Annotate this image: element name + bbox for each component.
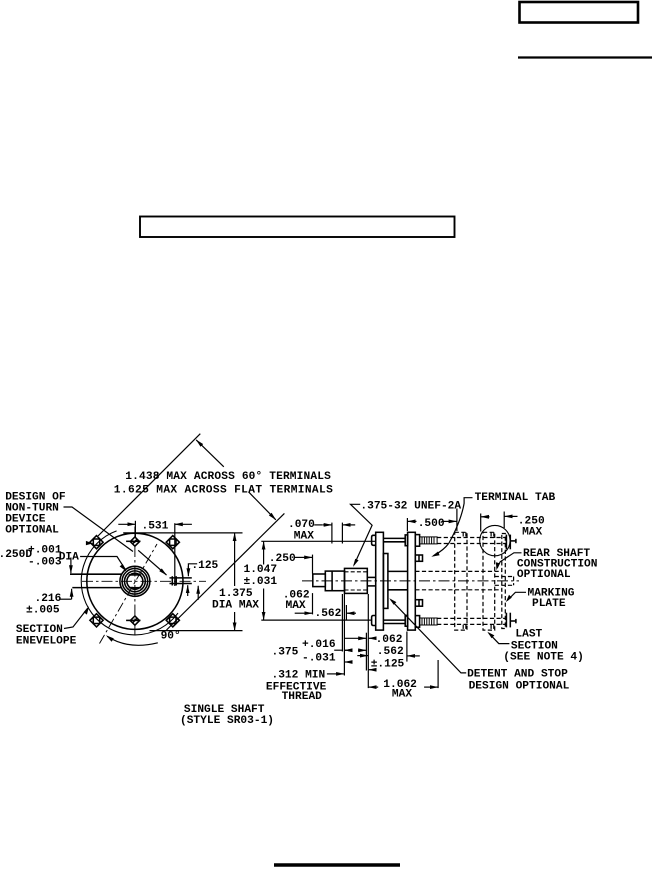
leader: section envelope: [64, 608, 88, 628]
svg-text:1.625 MAX ACROSS FLAT TERMINAL: 1.625 MAX ACROSS FLAT TERMINALS: [114, 484, 333, 496]
dim .216 upper arrow: [70, 558, 72, 574]
svg-text:DESIGN OPTIONAL: DESIGN OPTIONAL: [469, 681, 570, 693]
non-turn device tab lines (left): [70, 573, 122, 575]
terminal top-right diamond: [166, 536, 179, 549]
leader terminal tab: [434, 498, 473, 556]
dim .500: [406, 518, 408, 531]
threaded bushing: [345, 568, 368, 593]
svg-text:DETENT AND STOP: DETENT AND STOP: [467, 669, 568, 681]
leader last section: [489, 633, 510, 643]
dim 1.062 max: [369, 686, 379, 688]
dim .562 +-.125 row: [345, 649, 346, 651]
svg-text:.062: .062: [376, 634, 403, 646]
leader rear shaft construction: [497, 553, 521, 568]
dim 1.047 dimension line w/ arrows: [263, 542, 265, 565]
shaft tip: [313, 574, 326, 587]
svg-text:PLATE: PLATE: [532, 598, 566, 610]
rotor hub between plates: [388, 570, 408, 572]
tie rod hidden lines bottom: [437, 617, 506, 619]
bottom center rule: [274, 863, 400, 866]
side view centerline: [302, 580, 519, 582]
shaft circle with flats: [127, 573, 143, 589]
tie rod top: [383, 537, 405, 539]
svg-text:±.125: ±.125: [371, 659, 405, 671]
dim 1.375 dimension line upper w/ arrow: [234, 533, 236, 586]
svg-text:.531: .531: [142, 521, 169, 533]
dim arrow at first section plate: [407, 655, 420, 657]
svg-text:+.001: +.001: [28, 545, 62, 557]
dim .562 (shaft) row: [295, 612, 303, 614]
dim 1.375 top extension line: [123, 532, 242, 534]
svg-text:.375-32 UNEF-2A: .375-32 UNEF-2A: [360, 501, 461, 513]
svg-text:.070: .070: [288, 519, 315, 531]
terminal tab callout circle: [480, 525, 510, 555]
threaded rod end bottom: [420, 618, 438, 625]
tie rod end nut right top: [505, 535, 507, 550]
svg-text:MAX: MAX: [522, 527, 542, 539]
vertical centerline: [134, 527, 136, 638]
lower extension lines under bushing: [341, 594, 343, 652]
dim .125 bracket + upper arrow: [188, 564, 197, 568]
svg-text:1.438 MAX ACROSS 60° TERMINALS: 1.438 MAX ACROSS 60° TERMINALS: [125, 471, 331, 483]
dim .375 +.016 -.031 leader + arrows: [334, 649, 342, 651]
dim .250 shaft arrow + ext: [295, 556, 303, 558]
title block box (empty, top right): [520, 2, 639, 23]
svg-text:.375: .375: [272, 647, 299, 659]
washer top: [405, 535, 407, 546]
svg-text:.125: .125: [191, 560, 218, 572]
detent and stop housing: [383, 554, 388, 609]
dim .062 row: [345, 637, 366, 639]
washer bottom: [405, 615, 407, 626]
tie rod end nut right bottom: [505, 613, 507, 628]
svg-text:-.031: -.031: [302, 653, 336, 665]
svg-text:1.047: 1.047: [244, 564, 278, 576]
svg-text:.312 MIN: .312 MIN: [272, 670, 326, 682]
section envelope circle: [81, 531, 178, 635]
dim 1.375 dimension line lower w/ arrow: [234, 612, 236, 631]
rotor hidden lines to last section: [415, 570, 502, 572]
svg-text:OPTIONAL: OPTIONAL: [517, 569, 571, 581]
tie rod hidden lines top: [437, 537, 506, 539]
dim .312 min row: [327, 673, 336, 675]
leader: design of non-turn device: [64, 507, 134, 552]
screw head bottom: [372, 616, 376, 626]
svg-text:DIA MAX: DIA MAX: [212, 600, 259, 612]
dim .250 max (rear): [480, 514, 482, 532]
svg-text:DIA: DIA: [59, 551, 79, 563]
svg-text:ENEVELOPE: ENEVELOPE: [16, 636, 77, 648]
terminal right flat: [170, 576, 192, 585]
bushing thread hidden lines: [345, 571, 368, 573]
svg-text:1.375: 1.375: [219, 588, 253, 600]
svg-text:LAST: LAST: [515, 629, 542, 641]
leader: .250D dia: [80, 557, 125, 570]
shaft second step: [325, 571, 344, 591]
dim .531 right arrow: [175, 523, 192, 525]
rear shaft optional (phantom): [495, 576, 514, 578]
svg-text:.562: .562: [315, 608, 342, 620]
leader arrow to flat terminal (45deg): [138, 550, 166, 575]
svg-text:.216: .216: [35, 593, 62, 605]
marking plate (phantom): [502, 534, 506, 629]
dim 1.438/1.625 extension line B (lower 45deg): [167, 513, 285, 630]
figure label box (empty, middle): [140, 217, 455, 238]
optional wafer section 1 (phantom): [455, 532, 467, 630]
shaft step joint line: [331, 571, 333, 591]
dim .531 extension line 2 (right terminal): [174, 523, 176, 586]
dim 1.375 bottom extension line: [150, 630, 243, 632]
dim 1.438/1.625 extension line A (upper-left 45deg): [98, 434, 200, 536]
hub / bushing circles: [120, 566, 150, 596]
svg-text:SECTION: SECTION: [16, 624, 63, 636]
terminal top non-turn pin: [126, 537, 140, 546]
screw head top: [372, 535, 376, 545]
dim .216 lower arrow + bracket to text: [59, 598, 72, 600]
dim 1.438/1.625 dimension line upper segment w/ arrow: [196, 440, 224, 467]
terminal tab upper (on first section): [415, 555, 422, 561]
svg-text:(STYLE SR03-1): (STYLE SR03-1): [180, 715, 274, 727]
terminal top-left diamond: [90, 536, 103, 549]
front mounting plate: [376, 532, 384, 630]
dim .531 extension line 1 (center): [134, 521, 136, 538]
terminal bottom-right diamond: [166, 614, 179, 627]
leader .375-32 UNEF-2A: [351, 504, 373, 565]
horizontal centerline: [82, 580, 206, 582]
svg-text:MAX: MAX: [392, 689, 412, 701]
svg-text:±.031: ±.031: [244, 576, 278, 588]
section tab marks: [462, 532, 464, 537]
threaded rod end top: [420, 537, 438, 544]
dim 1.438/1.625 dimension line lower segment w/ arrow: [249, 492, 276, 520]
svg-text:TERMINAL TAB: TERMINAL TAB: [475, 492, 556, 504]
terminal bottom pin: [126, 616, 140, 625]
terminal tab lower (on first section): [415, 600, 422, 607]
front view text labels: [0, 471, 333, 727]
svg-text:OPTIONAL: OPTIONAL: [5, 525, 59, 537]
dim 1.047 ext lines: [261, 540, 375, 542]
tie rod bottom: [383, 619, 405, 621]
svg-text:MAX: MAX: [294, 531, 314, 543]
svg-text:MAX: MAX: [286, 600, 306, 612]
nut bottom: [415, 616, 419, 628]
svg-text:.500: .500: [418, 518, 445, 530]
svg-text:+.016: +.016: [302, 639, 336, 651]
leader detent and stop: [391, 600, 466, 673]
first section plate: [408, 532, 416, 630]
svg-text:(SEE NOTE 4): (SEE NOTE 4): [503, 652, 584, 664]
leader marking plate: [507, 592, 526, 600]
last section (phantom): [483, 532, 495, 630]
dim .125 lower arrows: [187, 585, 189, 596]
60 deg terminal centerline (diagonal dash-dot): [100, 544, 158, 644]
svg-text:±.005: ±.005: [26, 605, 60, 617]
front view body outer circle: [87, 533, 183, 629]
nut top: [415, 535, 419, 547]
terminal bottom-left diamond: [90, 614, 103, 627]
svg-text:90°: 90°: [161, 630, 181, 642]
dim .070 arrows + ext lines: [314, 524, 323, 526]
svg-text:-.003: -.003: [28, 556, 62, 568]
header rule line top right: [518, 56, 652, 58]
neck between bushing and plate: [367, 576, 375, 578]
90 deg arc w/ arrow: [107, 636, 158, 645]
svg-text:.562: .562: [377, 646, 404, 658]
side view text labels: [244, 492, 598, 703]
dim .531 left arrow: [118, 523, 135, 525]
svg-text:THREAD: THREAD: [282, 691, 323, 703]
